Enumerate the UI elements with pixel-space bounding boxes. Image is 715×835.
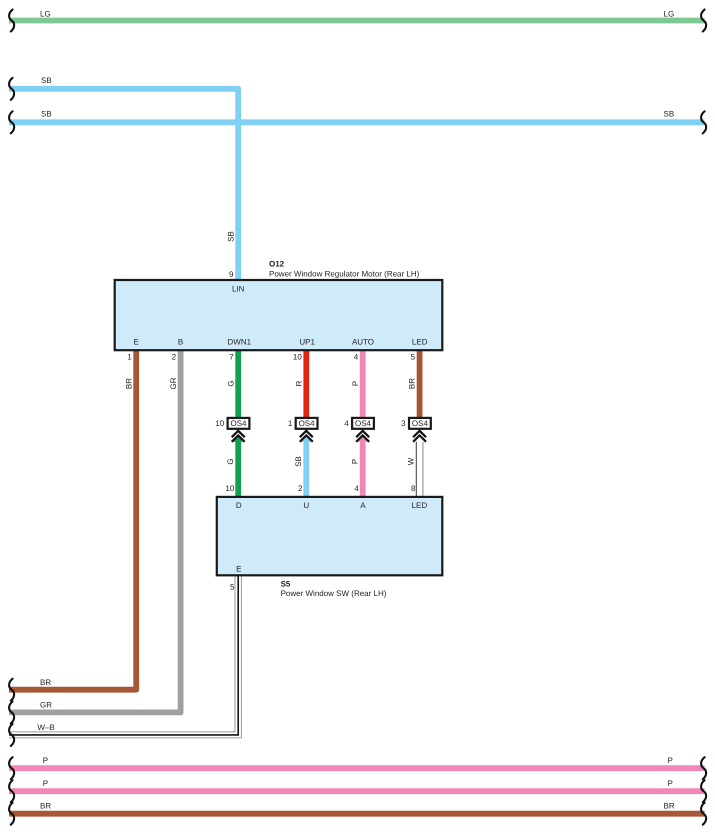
- wire G from O12 pin DWN1 to connector OS4: [235, 348, 241, 419]
- block O12 Power Window Regulator Motor (Rear LH): [115, 280, 443, 350]
- svg-text:2: 2: [298, 484, 303, 493]
- svg-text:E: E: [236, 565, 241, 574]
- wire break squiggle BR3 left: [9, 803, 14, 825]
- svg-text:BR: BR: [40, 802, 51, 811]
- svg-text:LED: LED: [412, 338, 428, 347]
- svg-text:UP1: UP1: [299, 338, 315, 347]
- connector chevron (DWN1): [232, 431, 245, 437]
- wire BR from O12 pin LED to connector OS4: [417, 348, 423, 419]
- svg-text:3: 3: [401, 419, 406, 428]
- wire break squiggle LG right: [701, 10, 706, 32]
- svg-text:OS4: OS4: [299, 419, 316, 428]
- svg-text:10: 10: [293, 353, 302, 362]
- wire SB2 horizontal full width: [9, 119, 705, 125]
- svg-text:4: 4: [354, 353, 359, 362]
- svg-text:4: 4: [354, 484, 359, 493]
- wire break squiggle P2 right: [701, 780, 706, 802]
- svg-text:P: P: [351, 381, 360, 386]
- svg-text:S5: S5: [281, 579, 291, 588]
- connector chevron (UP1): [300, 431, 313, 437]
- wire break squiggle P2 left: [9, 780, 14, 802]
- svg-text:7: 7: [229, 353, 234, 362]
- svg-text:BR: BR: [408, 378, 417, 389]
- wire P from O12 pin AUTO to connector OS4: [360, 348, 366, 419]
- svg-text:LIN: LIN: [232, 285, 245, 294]
- wire W-B from S5 pin E down and left to edge (white with black stripe): [9, 573, 235, 732]
- wire break squiggle SB2 left: [9, 111, 14, 133]
- connector OS4 (AUTO column) box and number: [344, 418, 374, 429]
- svg-text:2: 2: [172, 353, 177, 362]
- svg-text:G: G: [226, 380, 235, 386]
- connector chevron (LED): [413, 431, 426, 437]
- svg-text:LED: LED: [412, 501, 428, 510]
- wire GR from O12 pin B down and left to edge: [9, 348, 181, 712]
- wire BR horizontal bottom 3: [9, 811, 705, 817]
- svg-text:Power Window Regulator Motor (: Power Window Regulator Motor (Rear LH): [269, 269, 420, 278]
- svg-text:LG: LG: [664, 10, 675, 19]
- wire LG horizontal top: [9, 18, 705, 24]
- svg-text:A: A: [360, 501, 366, 510]
- wire SB from OS4 to S5 pin U: [303, 438, 309, 498]
- svg-text:OS4: OS4: [230, 419, 247, 428]
- connector OS4 (UP1 column) box and number: [288, 418, 318, 429]
- wire W (white, outlined) from OS4 to S5 pin LED: [415, 438, 417, 498]
- svg-text:OS4: OS4: [412, 419, 429, 428]
- svg-text:P: P: [668, 779, 673, 788]
- svg-text:Power Window SW (Rear LH): Power Window SW (Rear LH): [281, 589, 387, 598]
- svg-text:P: P: [668, 756, 673, 765]
- wire break squiggle BR left: [9, 679, 14, 701]
- svg-text:BR: BR: [40, 678, 51, 687]
- svg-text:4: 4: [344, 419, 349, 428]
- svg-text:9: 9: [229, 270, 234, 279]
- svg-text:SB: SB: [664, 110, 675, 119]
- wire P horizontal bottom 2: [9, 788, 705, 794]
- wire break squiggle BR3 right: [701, 803, 706, 825]
- svg-text:P: P: [43, 779, 48, 788]
- svg-text:D: D: [236, 501, 242, 510]
- svg-text:W–B: W–B: [37, 723, 54, 732]
- svg-text:10: 10: [215, 419, 224, 428]
- svg-text:W: W: [406, 457, 415, 465]
- svg-text:U: U: [303, 501, 309, 510]
- svg-text:8: 8: [411, 484, 416, 493]
- wire P from OS4 to S5 pin A: [360, 438, 366, 498]
- svg-text:P: P: [43, 756, 48, 765]
- connector chevron (AUTO): [356, 431, 369, 437]
- wire break squiggle SB1 left: [9, 78, 14, 100]
- svg-text:SB: SB: [41, 110, 52, 119]
- wire break squiggle P1 right: [701, 757, 706, 779]
- connector OS4 (DWN1 column) box and number: [215, 418, 249, 429]
- svg-text:GR: GR: [169, 377, 178, 389]
- svg-text:BR: BR: [125, 378, 134, 389]
- svg-text:5: 5: [230, 582, 235, 591]
- svg-text:SB: SB: [41, 76, 52, 85]
- svg-text:E: E: [134, 338, 139, 347]
- wire G from OS4 to S5 pin D: [235, 438, 241, 498]
- svg-text:10: 10: [225, 484, 234, 493]
- svg-text:SB: SB: [294, 456, 303, 467]
- wire R from O12 pin UP1 to connector OS4: [303, 348, 309, 419]
- svg-text:GR: GR: [40, 701, 52, 710]
- svg-text:SB: SB: [226, 231, 235, 242]
- svg-text:DWN1: DWN1: [228, 338, 252, 347]
- svg-text:P: P: [351, 459, 360, 464]
- block S5 Power Window SW (Rear LH): [217, 497, 442, 575]
- svg-text:B: B: [178, 338, 183, 347]
- svg-text:5: 5: [411, 353, 416, 362]
- wire break squiggle SB2 right: [701, 111, 706, 133]
- svg-text:AUTO: AUTO: [352, 338, 374, 347]
- svg-text:R: R: [294, 380, 303, 386]
- wire P horizontal bottom 1: [9, 765, 705, 771]
- svg-text:O12: O12: [269, 260, 285, 269]
- svg-text:OS4: OS4: [355, 419, 372, 428]
- svg-text:1: 1: [127, 353, 132, 362]
- svg-text:G: G: [226, 458, 235, 464]
- svg-text:LG: LG: [40, 10, 51, 19]
- svg-text:1: 1: [288, 419, 293, 428]
- wire SB1 horizontal with vertical drop to O12 pin 9: [9, 89, 238, 282]
- wire break squiggle P1 left: [9, 757, 14, 779]
- wire break squiggle GR left: [9, 701, 14, 723]
- wire BR from O12 pin E down and left to edge: [9, 348, 136, 690]
- wire break squiggle LG left: [9, 10, 14, 32]
- svg-text:BR: BR: [664, 802, 675, 811]
- connector OS4 (LED column) box and number: [401, 418, 431, 429]
- wire break squiggle W-B left: [9, 724, 14, 746]
